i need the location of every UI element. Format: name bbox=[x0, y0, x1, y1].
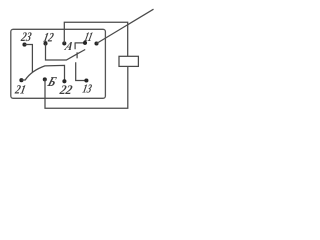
contact bar 2 bbox=[76, 52, 78, 58]
terminal dot 22 bbox=[62, 79, 66, 83]
terminal dot 21 bbox=[19, 78, 23, 82]
relay case outline bbox=[11, 29, 106, 98]
wire 23 bbox=[25, 45, 33, 73]
contact bar 1 and stub to 11 front dot bbox=[75, 42, 85, 49]
armature 2 and wire to 22 bbox=[21, 65, 64, 81]
terminal dot B bbox=[43, 77, 47, 81]
terminal dot 13 bbox=[84, 78, 88, 82]
coil wire B-side: down, across, up bbox=[45, 66, 128, 108]
wire 12 and armature 1 bbox=[46, 44, 86, 61]
svg-text:21: 21 bbox=[13, 83, 27, 97]
terminal dot 23 bbox=[22, 43, 26, 47]
svg-text:13: 13 bbox=[81, 82, 93, 96]
coil wire A-side: up, across, down bbox=[64, 22, 127, 56]
terminal dot 11 bbox=[94, 41, 98, 45]
coil rectangle bbox=[119, 56, 138, 66]
front contact wire bbox=[76, 62, 87, 80]
svg-text:23: 23 bbox=[19, 29, 33, 44]
svg-text:22: 22 bbox=[58, 82, 74, 97]
terminal dot 12 bbox=[43, 41, 47, 45]
front contact dot 11a bbox=[83, 41, 87, 45]
terminal dot A bbox=[62, 41, 66, 45]
svg-text:11: 11 bbox=[83, 29, 94, 44]
leader line to top right bbox=[97, 9, 154, 43]
svg-text:Б: Б bbox=[45, 75, 58, 90]
